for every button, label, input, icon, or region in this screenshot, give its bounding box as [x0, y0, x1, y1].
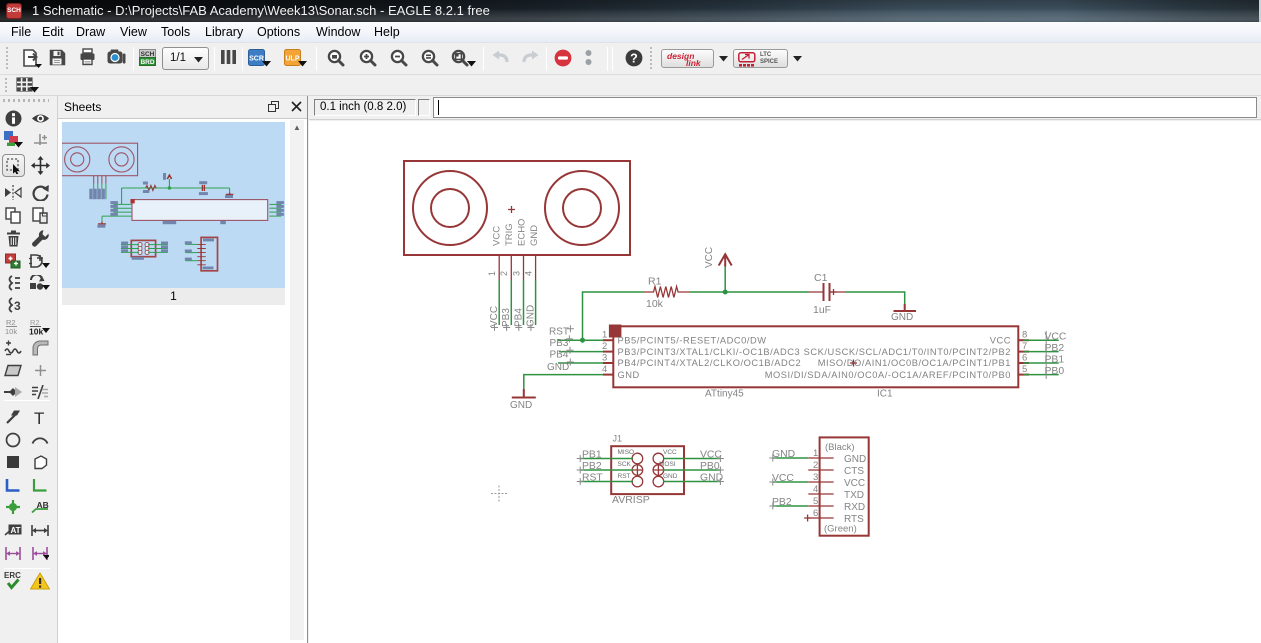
FTDI pin number 5	[813, 496, 818, 507]
sonar left transducer	[413, 171, 487, 245]
svg-text:IC1: IC1	[877, 389, 893, 400]
net label VCC right	[1045, 332, 1067, 343]
connector J1 AVRISP body	[611, 446, 684, 494]
FTDI pin name VCC	[844, 478, 865, 489]
IC1 pin 1 stub	[603, 339, 613, 341]
wire net PB4 from sonar pin3	[523, 280, 525, 325]
label origin cross PB4	[567, 347, 574, 354]
label origin cross GND	[567, 359, 574, 366]
sonar pin name GND	[529, 225, 540, 246]
toolbar row 1	[0, 43, 1261, 75]
svg-text:SCK: SCK	[618, 461, 632, 468]
wire J1 GND right	[663, 481, 720, 483]
resistor R1	[643, 287, 690, 298]
J1 label VCC	[663, 449, 677, 456]
svg-text:GND: GND	[891, 312, 913, 323]
C1 value 1uF	[813, 304, 831, 316]
net label VCC vertical	[489, 306, 500, 327]
FTDI pin 4 stub	[808, 493, 833, 495]
GND label near C1	[891, 312, 913, 323]
sonar pin name ECHO	[517, 219, 528, 246]
net label PB0 right	[1045, 366, 1065, 377]
J1 pin cross SCK pad	[633, 465, 643, 475]
capacitor C1	[809, 283, 846, 301]
svg-text:PB5/PCINT5/-RESET/ADC0/DW: PB5/PCINT5/-RESET/ADC0/DW	[618, 335, 767, 345]
svg-text:2: 2	[602, 341, 607, 352]
svg-text:PB2: PB2	[582, 461, 602, 472]
wire end cross GND FTDI	[769, 455, 776, 462]
junction VCC node	[723, 290, 728, 295]
svg-text:AVRISP: AVRISP	[612, 494, 650, 506]
wire end cross PB2 J1	[577, 467, 584, 474]
FTDI pin 2 stub	[808, 469, 833, 471]
svg-text:MOSI: MOSI	[659, 461, 676, 468]
wire end cross GND J1	[717, 478, 724, 485]
svg-text:RXD: RXD	[844, 502, 865, 513]
R1 value 10k	[646, 298, 664, 310]
wire end cross pin1	[491, 324, 498, 331]
FTDI pin number 4	[813, 484, 818, 495]
C1 name label	[814, 272, 828, 284]
FTDI label Green	[824, 524, 857, 535]
junction on pin1 wire	[580, 338, 585, 343]
svg-text:1: 1	[487, 271, 497, 276]
wire PB2 to FTDI pin5	[773, 505, 809, 507]
svg-text:GND: GND	[663, 473, 678, 480]
svg-text:2: 2	[499, 271, 509, 276]
VCC symbol label	[704, 247, 715, 268]
IC1 pin 4 stub	[603, 374, 613, 376]
title bar	[0, 0, 1261, 22]
wire end cross RST J1	[577, 478, 584, 485]
J1 label MISO	[618, 449, 635, 456]
IC1 pin number 4	[602, 364, 607, 375]
FTDI pin number 6	[813, 508, 818, 519]
IC1 pin 8 stub	[1018, 339, 1029, 341]
mouse crosshair	[491, 486, 507, 502]
wire GND to IC pin4 with ground	[524, 375, 603, 390]
net label PB2 right	[1045, 343, 1065, 354]
wire J1 VCC right	[663, 458, 720, 460]
svg-text:GND: GND	[547, 362, 569, 373]
svg-text:PB1: PB1	[582, 450, 602, 461]
sonar pin number 1	[487, 271, 497, 276]
svg-text:4: 4	[602, 364, 607, 375]
svg-text:MISO/DO/AIN1/OC0B/OC1A/PCINT1/: MISO/DO/AIN1/OC0B/OC1A/PCINT1/PB1	[818, 358, 1011, 368]
label origin cross PB3	[566, 335, 573, 342]
J1 pin cross MOSI pad	[654, 465, 664, 475]
net label GND left	[547, 362, 569, 373]
svg-text:PB3: PB3	[550, 338, 569, 349]
FTDI pin 1 stub	[808, 457, 833, 459]
net label GND J1	[700, 473, 723, 484]
wire GND to FTDI pin1	[773, 457, 809, 459]
IC1 pin name row1 right VCC	[990, 335, 1011, 345]
svg-text:6: 6	[813, 508, 818, 519]
FTDI pin 5 stub	[808, 505, 833, 507]
IC1 pin number 5	[1022, 364, 1027, 375]
J1 label GND	[663, 473, 678, 480]
svg-text:TRIG: TRIG	[504, 223, 515, 246]
svg-text:10k: 10k	[646, 298, 664, 310]
svg-text:VCC: VCC	[1045, 332, 1067, 343]
svg-text:4: 4	[813, 484, 818, 495]
svg-text:GND: GND	[529, 225, 540, 246]
IC1 value ATtiny45	[705, 389, 744, 400]
IC1 pin number 7	[1022, 341, 1027, 352]
wire PB2 to J1 SCK	[580, 469, 633, 471]
svg-text:1: 1	[813, 448, 818, 459]
sonar pin number 2	[499, 271, 509, 276]
IC1 pin number 6	[1022, 352, 1027, 363]
VCC supply symbol	[719, 254, 732, 266]
sonar pin 3 stub	[523, 255, 525, 280]
toolbar row 2	[0, 76, 1261, 96]
sonar pin name VCC	[492, 226, 503, 246]
IC1 pin 6 stub	[1018, 362, 1029, 364]
svg-text:VCC: VCC	[990, 335, 1011, 345]
svg-text:PB0: PB0	[700, 461, 720, 472]
net label PB2 FTDI	[772, 497, 792, 508]
wire C1 to GND	[845, 292, 905, 305]
sonar module U$1 body	[404, 161, 630, 255]
FTDI pin number 1	[813, 448, 818, 459]
IC1 pin 5 stub	[1018, 374, 1029, 376]
parameter bar	[309, 96, 1261, 120]
net label RST	[549, 327, 569, 338]
svg-text:RST: RST	[549, 327, 569, 338]
wire end cross pin2	[503, 324, 510, 331]
net label VCC J1	[700, 450, 722, 461]
IC1 corner mark	[609, 325, 622, 338]
IC1 pin name row4 left	[618, 370, 640, 380]
connector J1 name	[613, 434, 623, 444]
wire VCC to FTDI pin3	[773, 481, 809, 483]
svg-text:J1: J1	[613, 434, 623, 444]
ground symbol below IC pin4	[512, 389, 536, 398]
ground symbol near C1	[894, 304, 917, 311]
J1 pad MISO	[632, 453, 643, 464]
net label PB4 vertical	[514, 308, 525, 327]
J1 pad MOSI	[653, 465, 664, 476]
stray origin cross on IC row3	[850, 360, 857, 367]
IC1 pin number 8	[1022, 330, 1027, 341]
FTDI pin name RXD	[844, 502, 865, 513]
net label GND FTDI	[772, 449, 795, 460]
svg-text:VCC: VCC	[704, 247, 715, 268]
svg-text:2: 2	[813, 460, 818, 471]
svg-text:VCC: VCC	[492, 226, 503, 246]
net label PB2 J1	[582, 461, 602, 472]
svg-text:TXD: TXD	[844, 490, 864, 501]
FTDI pin number 3	[813, 472, 818, 483]
J1 label SCK	[618, 461, 632, 468]
IC1 ATtiny45 body	[613, 326, 1018, 387]
svg-text:PB0: PB0	[1045, 366, 1065, 377]
sheets panel	[58, 96, 308, 643]
J1 label RST	[618, 473, 631, 480]
net label PB0 J1	[700, 461, 720, 472]
wire end cross VCC J1	[717, 455, 724, 462]
sonar pin 1 stub	[498, 255, 500, 280]
wire end cross PB2 FTDI	[769, 503, 776, 510]
net label GND vertical	[526, 305, 537, 327]
wire net PB3 from sonar pin2	[510, 280, 512, 325]
net label VCC FTDI	[772, 473, 794, 484]
IC1 pin 7 stub	[1018, 351, 1029, 353]
IC1 pin name row3 left	[618, 358, 802, 368]
wire net GND from sonar pin4	[535, 280, 537, 325]
FTDI connector body	[820, 437, 869, 535]
net label RST J1	[582, 473, 603, 484]
sonar right transducer	[545, 171, 619, 245]
svg-text:PB3/PCINT3/XTAL1/CLKI/-OC1B/AD: PB3/PCINT3/XTAL1/CLKI/-OC1B/ADC3	[618, 347, 801, 357]
svg-text:RTS: RTS	[844, 514, 864, 525]
svg-text:3: 3	[813, 472, 818, 483]
IC1 pin 2 stub	[603, 351, 613, 353]
wire PB3 to IC pin2	[559, 351, 603, 353]
svg-text:MOSI/DI/SDA/AIN0/OC0A/-OC1A/AR: MOSI/DI/SDA/AIN0/OC0A/-OC1A/AREF/PCINT0/…	[765, 370, 1011, 380]
J1 value AVRISP	[612, 494, 650, 506]
svg-text:GND: GND	[844, 454, 866, 465]
svg-text:1uF: 1uF	[813, 304, 831, 316]
wire PB2 IC pin7	[1023, 351, 1058, 353]
svg-text:SCK/USCK/SCL/ADC1/T0/INT0/PCIN: SCK/USCK/SCL/ADC1/T0/INT0/PCINT2/PB2	[804, 347, 1011, 357]
svg-text:6: 6	[1022, 352, 1027, 363]
wire RST net vertical to R1	[583, 292, 644, 340]
wire junction up to VCC symbol	[724, 266, 726, 292]
IC1 pin name row1 left	[618, 335, 767, 345]
FTDI label Black	[825, 442, 855, 453]
FTDI pin6 end cross	[804, 515, 811, 522]
svg-text:(Green): (Green)	[824, 524, 857, 535]
IC1 pin name row3 right	[818, 358, 1011, 368]
svg-text:PB2: PB2	[1045, 343, 1065, 354]
IC1 name label	[877, 389, 893, 400]
wire end cross PB0 J1	[717, 467, 724, 474]
wire J1 PB0 right	[663, 469, 720, 471]
label origin cross RST	[567, 325, 574, 332]
svg-text:PB4: PB4	[550, 350, 569, 361]
wire PB4 to IC pin3	[558, 362, 603, 364]
J1 pad VCC	[653, 453, 664, 464]
sonar pin 2 stub	[510, 255, 512, 280]
svg-text:(Black): (Black)	[825, 442, 855, 453]
svg-text:RST: RST	[618, 473, 631, 480]
GND label below IC	[510, 400, 532, 411]
wire net VCC from sonar pin1	[498, 280, 500, 325]
wire PB0 IC pin5	[1023, 374, 1058, 376]
svg-text:PB1: PB1	[1045, 355, 1065, 366]
FTDI pin 6 stub	[808, 517, 833, 519]
svg-text:RST: RST	[582, 473, 603, 484]
IC1 pin 3 stub	[603, 362, 613, 364]
menu bar	[0, 22, 1261, 43]
J1 label MOSI	[659, 461, 676, 468]
IC1 pin number 1	[602, 330, 607, 341]
sonar origin cross	[508, 206, 515, 213]
J1 pad RST	[632, 476, 643, 487]
svg-text:CTS: CTS	[844, 466, 864, 477]
svg-text:5: 5	[813, 496, 818, 507]
wire RST to J1 RST	[580, 481, 633, 483]
wire end cross pin3	[515, 324, 522, 331]
wire end cross pin4	[527, 324, 534, 331]
J1 pad GND	[653, 476, 664, 487]
FTDI pin 3 stub	[808, 481, 833, 483]
svg-text:R1: R1	[648, 276, 662, 288]
svg-text:VCC: VCC	[663, 449, 677, 456]
svg-text:VCC: VCC	[489, 306, 500, 327]
FTDI pin name TXD	[844, 490, 864, 501]
J1 pad SCK	[632, 465, 643, 476]
IC1 pin name row2 left	[618, 347, 801, 357]
sonar pin name TRIG	[504, 223, 515, 246]
svg-text:MISO: MISO	[618, 449, 635, 456]
svg-text:ATtiny45: ATtiny45	[705, 389, 744, 400]
wire VCC IC pin8	[1023, 339, 1058, 341]
IC1 pin name row2 right	[804, 347, 1011, 357]
svg-text:5: 5	[1022, 364, 1027, 375]
FTDI pin name RTS	[844, 514, 864, 525]
svg-text:ECHO: ECHO	[517, 219, 528, 246]
svg-text:VCC: VCC	[844, 478, 865, 489]
wire PB1 IC pin6	[1023, 362, 1058, 364]
sonar pin number 4	[524, 271, 534, 276]
net label PB1 right	[1045, 355, 1065, 366]
wire PB1 to J1 MISO	[580, 458, 633, 460]
svg-text:3: 3	[512, 271, 522, 276]
IC1 pin number 3	[602, 352, 607, 363]
FTDI pin name GND	[844, 454, 866, 465]
wire end cross VCC FTDI	[769, 479, 776, 486]
svg-text:PB4/PCINT4/XTAL2/CLKO/OC1B/ADC: PB4/PCINT4/XTAL2/CLKO/OC1B/ADC2	[618, 358, 802, 368]
net label PB3 left	[550, 338, 569, 349]
svg-text:4: 4	[524, 271, 534, 276]
svg-text:GND: GND	[618, 370, 640, 380]
vertical gray line right labels	[1045, 331, 1047, 379]
wire RST to IC pin1	[558, 339, 603, 341]
wire R1 to junction	[690, 291, 809, 293]
left tool palette	[0, 96, 58, 643]
net label PB3 vertical	[501, 308, 512, 327]
white canvas	[309, 121, 1261, 643]
sonar pin number 3	[512, 271, 522, 276]
FTDI pin number 2	[813, 460, 818, 471]
wire end cross PB1 J1	[577, 455, 584, 462]
sonar pin 4 stub	[535, 255, 537, 280]
IC1 pin name row4 right	[765, 370, 1011, 380]
IC1 pin number 2	[602, 341, 607, 352]
svg-text:C1: C1	[814, 272, 828, 284]
svg-text:7: 7	[1022, 341, 1027, 352]
R1 name label	[648, 276, 662, 288]
svg-text:GND: GND	[510, 400, 532, 411]
net label PB4 left	[550, 350, 569, 361]
svg-text:1: 1	[602, 330, 607, 341]
svg-text:8: 8	[1022, 330, 1027, 341]
svg-text:3: 3	[602, 352, 607, 363]
net label PB1 J1	[582, 450, 602, 461]
svg-text:GND: GND	[526, 305, 537, 327]
FTDI pin name CTS	[844, 466, 864, 477]
